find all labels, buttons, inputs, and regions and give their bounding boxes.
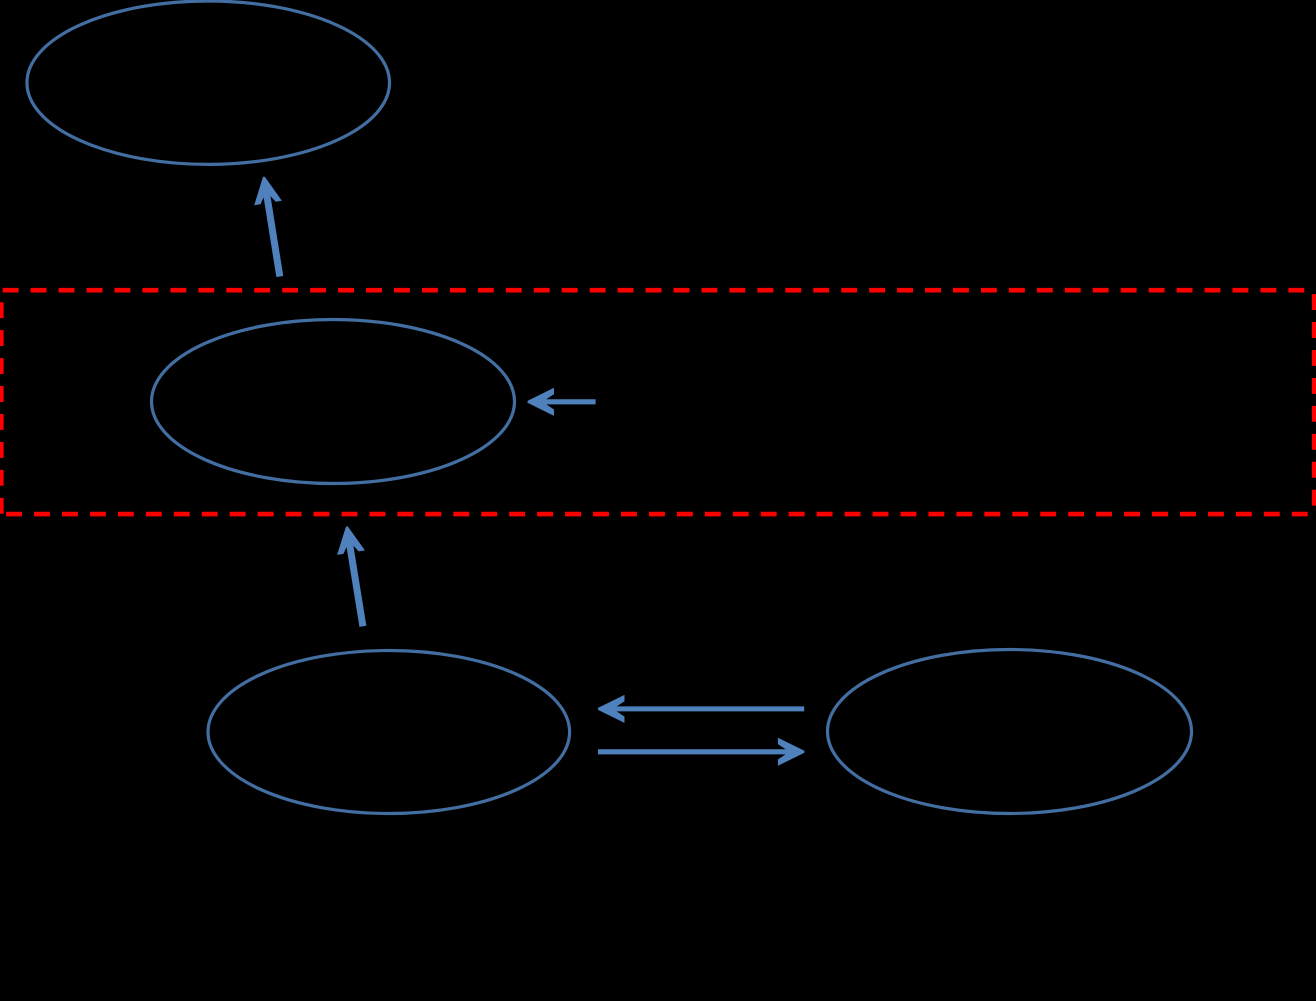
red dashed rectangle top edge — [3, 288, 1313, 293]
arrow 2 bottom-ellipse to dashed box — [337, 526, 365, 626]
red dashed rectangle bottom edge — [6, 512, 1311, 517]
ellipse D bottom-right — [828, 650, 1192, 814]
arrow 5 right-pointing between bottom ellipses — [598, 738, 804, 766]
red dashed rectangle right edge — [1312, 294, 1316, 506]
red dashed rectangle left edge — [0, 302, 4, 514]
ellipse C bottom-left — [208, 651, 570, 814]
ellipse A top-left — [27, 1, 390, 164]
ellipse B middle — [152, 320, 515, 484]
arrow 3 small left-pointing at middle ellipse — [528, 388, 596, 416]
arrow 1 middle-ellipse to top-ellipse — [254, 177, 282, 277]
arrow 4 left-pointing between bottom ellipses — [598, 695, 804, 723]
red dashed rectangle — [1, 290, 1314, 514]
